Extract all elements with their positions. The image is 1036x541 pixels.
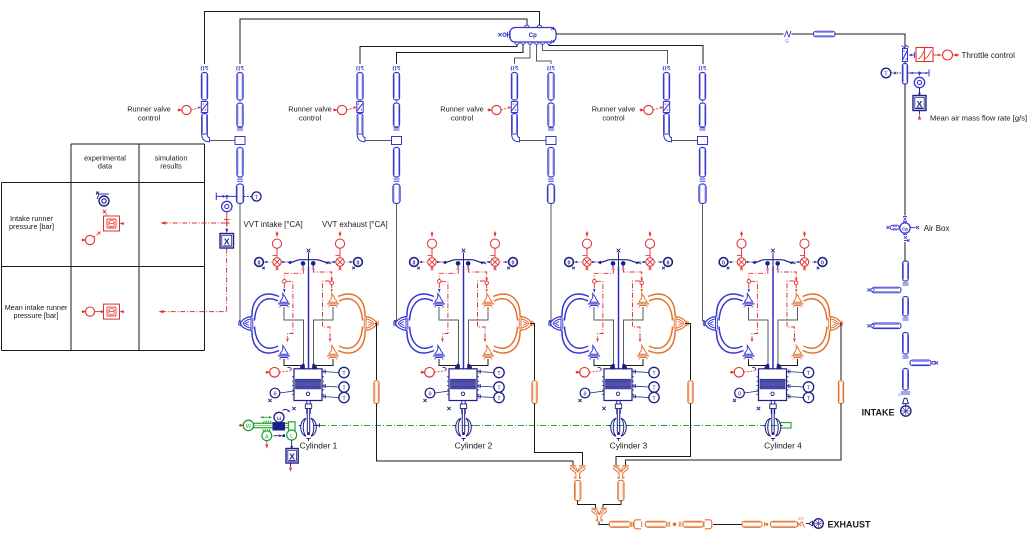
svg-text:pressure [bar]: pressure [bar] xyxy=(13,311,58,320)
svg-text:A: A xyxy=(265,434,269,440)
svg-text:0: 0 xyxy=(413,260,416,266)
svg-text:Cp: Cp xyxy=(902,227,908,232)
svg-text:Cylinder 4: Cylinder 4 xyxy=(764,441,802,451)
svg-text:EV: EV xyxy=(798,516,804,521)
svg-text:L: L xyxy=(290,434,293,440)
svg-text:Runner valve: Runner valve xyxy=(592,105,636,114)
svg-text:ω: ω xyxy=(277,416,282,422)
svg-text:0: 0 xyxy=(512,260,515,266)
svg-text:results: results xyxy=(160,162,182,171)
svg-text:Cylinder 2: Cylinder 2 xyxy=(455,441,493,451)
svg-text:θ: θ xyxy=(738,392,741,398)
svg-text:0: 0 xyxy=(667,260,670,266)
svg-text:Cp: Cp xyxy=(529,33,537,39)
svg-text:W: W xyxy=(246,424,252,430)
svg-text:θ: θ xyxy=(583,392,586,398)
svg-text:Runner valve: Runner valve xyxy=(440,105,484,114)
svg-text:Cylinder 1: Cylinder 1 xyxy=(300,441,338,451)
svg-text:Runner valve: Runner valve xyxy=(288,105,332,114)
svg-text:Mean air mass flow rate [g/s]: Mean air mass flow rate [g/s] xyxy=(930,113,1027,122)
svg-text:VVT intake [°CA]: VVT intake [°CA] xyxy=(244,220,303,229)
svg-text:X: X xyxy=(289,451,295,461)
svg-text:control: control xyxy=(299,114,322,123)
svg-text:X: X xyxy=(917,99,923,109)
svg-text:INTAKE: INTAKE xyxy=(862,407,895,417)
svg-text:data: data xyxy=(98,162,113,171)
svg-text:0: 0 xyxy=(568,260,571,266)
svg-text:Cylinder 3: Cylinder 3 xyxy=(610,441,648,451)
svg-text:EXHAUST: EXHAUST xyxy=(828,519,872,529)
svg-text:control: control xyxy=(451,114,474,123)
svg-text:0: 0 xyxy=(722,260,725,266)
svg-text:0: 0 xyxy=(357,260,360,266)
svg-text:0: 0 xyxy=(821,260,824,266)
svg-text:G: G xyxy=(785,39,789,44)
svg-text:Throttle control: Throttle control xyxy=(962,51,1016,60)
svg-text:VVT exhaust [°CA]: VVT exhaust [°CA] xyxy=(322,220,388,229)
svg-text:θ: θ xyxy=(428,392,431,398)
svg-text:Runner valve: Runner valve xyxy=(127,105,171,114)
svg-text:pressure [bar]: pressure [bar] xyxy=(9,222,54,231)
svg-text:T: T xyxy=(884,72,888,78)
svg-text:Air Box: Air Box xyxy=(924,224,950,233)
svg-text:control: control xyxy=(602,114,625,123)
svg-text:X: X xyxy=(224,237,230,247)
svg-text:control: control xyxy=(138,114,161,123)
svg-text:0: 0 xyxy=(258,260,261,266)
svg-text:θ: θ xyxy=(273,392,276,398)
